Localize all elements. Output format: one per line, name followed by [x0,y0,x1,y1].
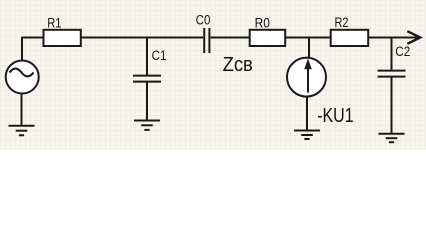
capacitor C1 [133,76,161,82]
current source -KU1 [287,58,326,97]
wire source top to R1 [22,38,45,61]
svg-text:R1: R1 [47,15,61,30]
wire C2 branch from main wire [391,38,393,70]
svg-text:Zсв: Zсв [223,54,253,76]
ground for source [9,126,35,136]
svg-text:-KU1: -KU1 [317,105,353,127]
AC voltage source [6,61,39,94]
output arrowhead [407,31,420,44]
resistor R2 [331,30,369,46]
wire R1 to C0 [81,37,203,39]
wire R0 to R2 [285,37,331,39]
wire junction down to current source [308,38,310,58]
capacitor C2 [378,71,406,77]
ground for C1 [134,121,160,130]
svg-text:C1: C1 [152,48,167,63]
wire C1 to ground [146,83,148,121]
svg-text:R0: R0 [255,15,270,30]
ground for C2 [379,134,405,143]
capacitor C0 (series) [204,28,209,53]
wire C1 branch from main wire [146,38,148,75]
resistor R0 [250,30,286,46]
ground for current source [294,131,320,140]
svg-text:C2: C2 [395,44,410,59]
wire source to ground [21,95,23,126]
wire current source to ground [306,98,308,131]
svg-text:R2: R2 [335,15,349,30]
svg-text:C0: C0 [196,12,211,27]
wire R2 to output arrow [369,37,419,39]
wire C2 to ground [391,78,393,134]
resistor R1 [44,30,81,46]
wire C0 to R0 [211,37,251,39]
